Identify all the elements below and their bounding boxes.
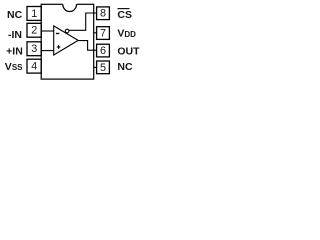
svg-text:NC: NC [7,9,23,21]
wire stub pin 5 [94,66,97,68]
wire stub pin 7 [94,32,97,34]
pin 4 box [27,59,41,73]
CS inversion bubble [65,29,69,33]
svg-text:8: 8 [100,8,106,20]
svg-text:OUT: OUT [117,45,140,57]
wire pin3 +IN input [41,50,54,52]
IC package body U1 [41,3,93,79]
pin 6 box [97,44,110,57]
pin 3 box [27,42,41,56]
svg-text:VDD: VDD [117,28,136,40]
svg-text:1: 1 [31,8,37,20]
wire OUT from apex to pin 6 [78,41,96,51]
pin 5 box [97,61,110,74]
svg-text:3: 3 [31,43,37,55]
minus label inverting input [56,33,60,35]
svg-text:+IN: +IN [6,46,23,58]
svg-text:-IN: -IN [8,29,22,41]
pin 2 box [27,23,41,37]
svg-text:7: 7 [100,28,106,40]
wire pin2 -IN input [41,30,54,32]
svg-text:CS: CS [117,9,132,21]
pin 7 box [97,27,110,40]
wire CS from bubble to pin 8 [69,13,97,30]
svg-text:2: 2 [31,25,37,37]
svg-text:NC: NC [117,61,133,73]
plus label noninverting input [57,45,61,49]
svg-text:VSS: VSS [5,61,23,73]
svg-text:6: 6 [100,45,106,57]
op-amp comparator U1 triangle [54,26,78,55]
svg-text:5: 5 [100,62,106,74]
pin 8 box [97,7,110,20]
CS overline [118,8,130,10]
pin 1 box [27,7,41,21]
svg-text:4: 4 [31,61,37,73]
